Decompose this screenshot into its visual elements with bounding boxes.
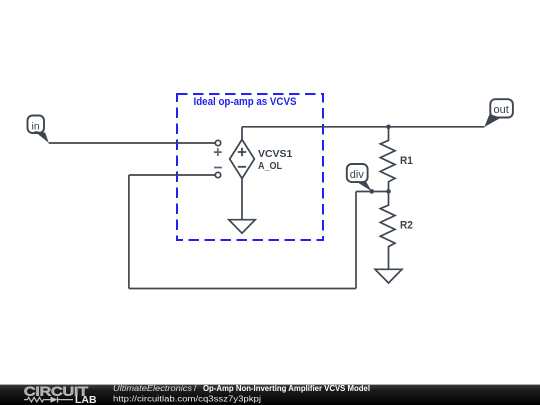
svg-text:out: out <box>494 104 509 116</box>
svg-text:UltimateElectronics: UltimateElectronics <box>113 384 192 393</box>
svg-text:Ideal op-amp as VCVS: Ideal op-amp as VCVS <box>194 96 297 108</box>
junction dot on out net <box>386 125 391 130</box>
ground below VCVS1 <box>229 220 255 234</box>
wire div horizontal <box>356 191 389 193</box>
junction dot R1-R2 <box>386 189 391 194</box>
wire right vertical feedback up to div <box>355 192 357 289</box>
svg-text:R2: R2 <box>400 219 413 231</box>
ground below R2 <box>375 269 402 283</box>
wire - terminal to left <box>129 174 215 176</box>
annotation box: Ideal op-amp as VCVS <box>177 94 323 240</box>
footer title line <box>113 384 370 393</box>
svg-text:Op-Amp Non-Inverting Amplifier: Op-Amp Non-Inverting Amplifier VCVS Mode… <box>203 384 370 393</box>
svg-text:http://circuitlab.com/cq3ssz7y: http://circuitlab.com/cq3ssz7y3pkpj <box>113 395 261 404</box>
CircuitLab logo circuit glyph <box>24 397 73 403</box>
CircuitLab logo diode triangle <box>51 397 58 403</box>
resistor R1 <box>380 127 413 192</box>
- input polarity sign <box>214 167 222 169</box>
footer bar <box>0 385 540 405</box>
svg-text:in: in <box>32 120 40 132</box>
svg-text:VCVS1: VCVS1 <box>258 148 292 160</box>
+ input polarity sign <box>214 148 222 156</box>
wire in to + terminal <box>49 142 216 144</box>
wire out net <box>242 126 484 128</box>
svg-text:div: div <box>350 169 365 181</box>
wire VCVS top lead <box>241 127 243 140</box>
junction dot div tap <box>370 189 375 194</box>
wire bottom feedback <box>129 288 356 290</box>
node flag in <box>28 116 49 143</box>
svg-text:LAB: LAB <box>75 395 97 405</box>
node flag div <box>347 164 372 191</box>
VCVS1 dependent source diamond <box>230 140 293 179</box>
svg-text:A_OL: A_OL <box>258 160 282 172</box>
resistor R2 <box>380 191 413 269</box>
- input terminal <box>215 172 220 177</box>
svg-text:R1: R1 <box>400 155 413 167</box>
wire left vertical feedback <box>128 175 130 289</box>
node flag out <box>484 99 513 127</box>
+ input terminal <box>215 140 220 145</box>
wire VCVS bottom lead to ground <box>241 179 243 220</box>
